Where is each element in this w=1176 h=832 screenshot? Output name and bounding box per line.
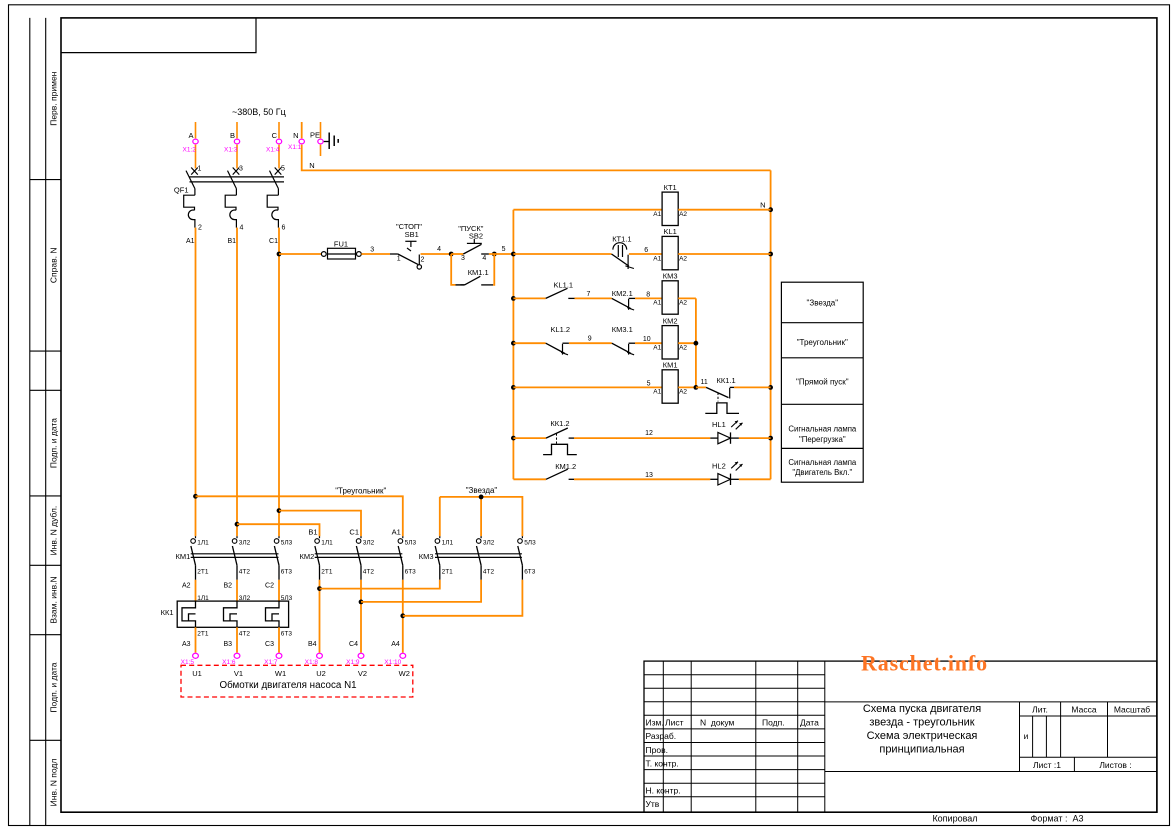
right bus junctions (768, 207, 773, 212)
bus junctions (511, 252, 516, 257)
svg-text:4Т2: 4Т2 (239, 631, 251, 638)
wire row5 left (513, 386, 662, 388)
circuit breaker QF1 (190, 176, 285, 178)
svg-text:X1:2: X1:2 (183, 147, 197, 154)
svg-text:1: 1 (198, 166, 202, 173)
svg-text:А1: А1 (653, 345, 661, 352)
svg-text:~380В, 50 Гц: ~380В, 50 Гц (232, 107, 286, 117)
wire PE stub (320, 122, 322, 138)
thermal contact KK1.2 (546, 428, 568, 438)
svg-text:Перв. примен: Перв. примен (49, 71, 59, 125)
svg-text:13: 13 (645, 472, 653, 479)
svg-text:3Л2: 3Л2 (363, 540, 375, 547)
terminal X1:4 phase C (276, 139, 281, 144)
svg-text:A3: A3 (182, 641, 191, 648)
right N bus (770, 170, 772, 479)
wire delta C to KM2 (279, 511, 361, 537)
svg-text:2Т1: 2Т1 (197, 569, 209, 576)
svg-text:6: 6 (282, 225, 286, 232)
wire KM2 pole1 down (319, 580, 321, 653)
svg-text:А1: А1 (653, 211, 661, 218)
svg-text:12: 12 (645, 430, 653, 437)
signal lamp HL1 (710, 437, 718, 439)
svg-text:A2: A2 (182, 583, 191, 590)
svg-text:C3: C3 (265, 641, 274, 648)
terminal X1:1 neutral (299, 139, 304, 144)
wire row5 to collector (678, 386, 696, 388)
junction star link2 (359, 600, 364, 605)
contact KM1.2 (546, 469, 568, 479)
svg-text:5: 5 (502, 246, 506, 253)
wire KM2 pole2 down (360, 580, 362, 653)
svg-text:KL1: KL1 (663, 227, 676, 236)
svg-text:КМ2: КМ2 (663, 316, 678, 325)
collector vertical A2 (695, 298, 697, 387)
legend boxes (781, 282, 863, 482)
wire KM1 to KK1 (195, 580, 197, 601)
junction delta C (277, 508, 282, 513)
wire phase C drop (278, 122, 280, 138)
wire A1 to KM1 (195, 228, 197, 537)
svg-text:4: 4 (240, 225, 244, 232)
wire KM1.1 branch left (451, 254, 455, 285)
svg-text:6Т3: 6Т3 (281, 569, 293, 576)
wire row3 to collector (678, 297, 696, 299)
wire C1 to FU1 (279, 253, 321, 255)
svg-text:Формат : А3: Формат : А3 (1031, 814, 1084, 824)
wire SB2 to bus (489, 253, 514, 255)
svg-text:N докум: N докум (700, 718, 735, 728)
svg-text:Инв. N подл: Инв. N подл (49, 759, 59, 807)
wire star link1 (320, 580, 440, 589)
svg-text:8: 8 (646, 292, 650, 299)
svg-text:"Перегрузка": "Перегрузка" (799, 435, 846, 444)
thermal relay KK1 (177, 601, 288, 627)
wire row6 mid (574, 437, 710, 439)
svg-text:А1: А1 (653, 300, 661, 307)
svg-text:C1: C1 (269, 238, 278, 245)
svg-text:5Л3: 5Л3 (405, 540, 417, 547)
svg-text:2: 2 (198, 225, 202, 232)
relay coil KT1 (662, 192, 678, 225)
wire row3 left (513, 297, 545, 299)
star bus (440, 497, 523, 536)
svg-text:2Т1: 2Т1 (197, 631, 209, 638)
wire phase A drop (195, 122, 197, 138)
svg-text:5Л3: 5Л3 (281, 595, 293, 602)
svg-text:B1: B1 (227, 238, 236, 245)
svg-text:B1: B1 (308, 528, 317, 537)
svg-text:"Звезда": "Звезда" (807, 299, 839, 308)
svg-text:9: 9 (588, 336, 592, 343)
svg-text:X1:3: X1:3 (224, 147, 238, 154)
svg-text:Подп. и дата: Подп. и дата (49, 418, 59, 468)
terminal X1:3 phase B (234, 139, 239, 144)
svg-text:C1: C1 (349, 528, 359, 537)
svg-text:5Л3: 5Л3 (281, 540, 293, 547)
wire B1 to KM1 (236, 228, 238, 537)
svg-text:B4: B4 (308, 641, 317, 648)
wire N drop and N feeder (302, 122, 771, 170)
svg-text:КК1: КК1 (161, 608, 174, 617)
svg-text:"Прямой пуск": "Прямой пуск" (796, 378, 849, 387)
svg-text:5Л3: 5Л3 (524, 540, 536, 547)
svg-text:А1: А1 (653, 389, 661, 396)
wire phase B drop (236, 122, 238, 138)
svg-text:КМ1.1: КМ1.1 (468, 268, 489, 277)
wire SB1 to SB2 (421, 253, 452, 255)
svg-text:SB1: SB1 (405, 230, 419, 239)
svg-text:N: N (293, 131, 298, 140)
svg-text:КК1.2: КК1.2 (550, 419, 569, 428)
svg-text:3Л2: 3Л2 (239, 540, 251, 547)
svg-text:Т. контр.: Т. контр. (646, 758, 679, 768)
svg-text:"Двигатель Вкл.": "Двигатель Вкл." (792, 468, 852, 477)
svg-text:B2: B2 (223, 583, 232, 590)
svg-text:1: 1 (397, 256, 401, 263)
contactor coil KM3 (662, 281, 678, 314)
svg-text:1Л1: 1Л1 (442, 540, 454, 547)
wire row3 mid2 (635, 297, 662, 299)
svg-text:6Т3: 6Т3 (524, 569, 536, 576)
svg-text:1Л1: 1Л1 (197, 540, 209, 547)
svg-text:принципиальная: принципиальная (879, 744, 964, 756)
wire FU1 to SB1 (361, 253, 390, 255)
terminal PE (318, 139, 323, 144)
svg-text:А2: А2 (679, 300, 687, 307)
svg-text:А2: А2 (679, 255, 687, 262)
svg-text:4Т2: 4Т2 (363, 569, 375, 576)
svg-text:X1:4: X1:4 (266, 147, 280, 154)
svg-text:Изм.: Изм. (646, 718, 664, 728)
svg-text:2: 2 (421, 257, 425, 264)
svg-text:2Т1: 2Т1 (321, 569, 333, 576)
svg-text:Подп. и дата: Подп. и дата (49, 662, 59, 712)
wire row4 mid1 (569, 342, 612, 344)
contactor KM3 main contacts (435, 553, 522, 555)
svg-text:Масса: Масса (1071, 705, 1096, 715)
wire row6 left (513, 437, 546, 439)
wire delta B to KM2 (237, 524, 320, 536)
junction star link1 (317, 586, 322, 591)
svg-text:Лит.: Лит. (1032, 705, 1048, 715)
svg-text:7: 7 (587, 291, 591, 298)
pushbutton SB1 STOP (390, 253, 398, 255)
contact KL1.1 (546, 288, 568, 298)
svg-text:Масштаб: Масштаб (1114, 705, 1150, 715)
svg-text:6: 6 (644, 247, 648, 254)
svg-text:KL1.2: KL1.2 (551, 325, 571, 334)
svg-text:Схема электрическая: Схема электрическая (867, 730, 978, 742)
svg-text:Взам. инв.N: Взам. инв.N (49, 576, 59, 623)
svg-text:4Т2: 4Т2 (239, 569, 251, 576)
svg-text:A4: A4 (391, 641, 400, 648)
svg-text:Листов :: Листов : (1099, 760, 1131, 770)
svg-text:3: 3 (370, 247, 374, 254)
svg-text:QF1: QF1 (174, 186, 189, 195)
thermal contact KK1.1 (706, 387, 728, 397)
wire HL2 to bus (739, 478, 771, 480)
svg-text:V1: V1 (234, 669, 243, 678)
contact KL1.2 (546, 343, 565, 353)
contact KM2.1 (612, 298, 631, 308)
auxiliary contact KM1.1 (461, 284, 465, 286)
svg-text:1Л1: 1Л1 (197, 595, 209, 602)
svg-text:Схема пуска двигателя: Схема пуска двигателя (863, 703, 981, 715)
svg-text:C4: C4 (349, 641, 358, 648)
contactor coil KM1 (662, 370, 678, 403)
svg-text:PE: PE (310, 131, 320, 140)
wire HL1 to bus (739, 437, 771, 439)
svg-text:A: A (188, 131, 193, 140)
svg-text:C: C (272, 131, 278, 140)
wire row2 mid (629, 253, 662, 255)
svg-text:3: 3 (461, 255, 465, 262)
svg-text:КМ2: КМ2 (300, 552, 315, 561)
wire row2 right (678, 253, 770, 255)
svg-text:А2: А2 (679, 211, 687, 218)
svg-text:Сигнальная лампа: Сигнальная лампа (788, 458, 857, 467)
svg-text:HL2: HL2 (712, 461, 726, 470)
wire row1 left (513, 209, 662, 211)
svg-text:4: 4 (482, 255, 486, 262)
svg-text:Инв. N дубл.: Инв. N дубл. (49, 506, 59, 556)
wire star link2 (361, 580, 481, 602)
timed contact KT1.1 (613, 243, 627, 250)
svg-text:"Треугольник": "Треугольник" (797, 338, 848, 347)
svg-text:A1: A1 (392, 528, 401, 537)
svg-text:W1: W1 (275, 669, 286, 678)
svg-text:КМ3.1: КМ3.1 (612, 325, 633, 334)
svg-text:5: 5 (281, 166, 285, 173)
svg-text:B3: B3 (223, 641, 232, 648)
junction delta A (193, 494, 198, 499)
junction star link3 (400, 613, 405, 618)
svg-text:звезда - треугольник: звезда - треугольник (869, 717, 974, 729)
motor winding box (181, 665, 413, 697)
motor terminals X1:5-X1:10 (193, 653, 199, 658)
svg-text:КК1.1: КК1.1 (717, 376, 736, 385)
relay coil KL1 (662, 236, 678, 269)
wire row2 left (513, 253, 611, 255)
svg-text:и: и (1024, 731, 1029, 741)
wire collector to KK1.1 (696, 386, 706, 388)
svg-text:6Т3: 6Т3 (281, 631, 293, 638)
svg-text:Пров.: Пров. (646, 745, 668, 755)
pushbutton SB2 PUSK (463, 244, 481, 254)
svg-text:4: 4 (437, 246, 441, 253)
svg-text:"Звезда": "Звезда" (466, 486, 498, 495)
terminal X1:2 phase A (193, 139, 198, 144)
svg-text:3: 3 (239, 166, 243, 173)
wire row4 mid2 (635, 342, 662, 344)
svg-text:U2: U2 (316, 669, 326, 678)
svg-text:HL1: HL1 (712, 420, 726, 429)
junction node 5 (492, 252, 497, 257)
wire KM2 pole3 down (402, 580, 404, 653)
svg-text:А2: А2 (679, 389, 687, 396)
wire delta A to KM2 (196, 496, 403, 536)
wire to SB2 (451, 253, 463, 255)
svg-text:11: 11 (701, 379, 708, 386)
svg-text:Дата: Дата (800, 718, 819, 728)
svg-text:U1: U1 (192, 669, 202, 678)
wire KM1.1 branch right (493, 254, 494, 285)
svg-text:А1: А1 (653, 255, 661, 262)
wire KK1.1 to bus (734, 386, 771, 388)
svg-text:2Т1: 2Т1 (442, 569, 454, 576)
contact KM3.1 (612, 343, 631, 353)
wire KK1 to motor (195, 627, 197, 652)
svg-text:КМ1: КМ1 (176, 552, 191, 561)
svg-text:Raschet.info: Raschet.info (861, 651, 988, 676)
svg-text:Разраб.: Разраб. (646, 731, 677, 741)
svg-text:5: 5 (647, 380, 651, 387)
svg-text:КМ2.1: КМ2.1 (612, 289, 633, 298)
contactor KM1 main contacts (191, 553, 279, 555)
wire row4 to collector (678, 342, 696, 344)
svg-text:КМ3: КМ3 (663, 272, 678, 281)
fuse FU1 (321, 252, 326, 257)
contactor coil KM2 (662, 326, 678, 359)
svg-text:Утв: Утв (646, 799, 660, 809)
wire row4 left (513, 342, 545, 344)
svg-text:4Т2: 4Т2 (483, 569, 495, 576)
svg-text:X1:1: X1:1 (288, 144, 302, 151)
wire C1 to KM1 (278, 228, 280, 537)
svg-text:КТ1.1: КТ1.1 (612, 235, 631, 244)
svg-text:"Треугольник": "Треугольник" (335, 486, 386, 495)
svg-text:FU1: FU1 (334, 239, 348, 248)
svg-text:Копировал: Копировал (932, 814, 977, 824)
svg-text:А2: А2 (679, 345, 687, 352)
svg-text:W2: W2 (399, 669, 410, 678)
wire row7 mid (574, 478, 710, 480)
svg-text:N: N (309, 161, 314, 170)
svg-text:B: B (230, 131, 235, 140)
svg-text:КМ1: КМ1 (663, 361, 678, 370)
svg-text:Лист: Лист (665, 718, 684, 728)
svg-text:N: N (760, 201, 765, 210)
svg-text:A1: A1 (186, 238, 195, 245)
svg-text:Подп.: Подп. (762, 718, 785, 728)
svg-text:3Л2: 3Л2 (239, 595, 251, 602)
svg-text:6Т3: 6Т3 (405, 569, 417, 576)
svg-text:C2: C2 (265, 583, 274, 590)
svg-text:Обмотки двигателя насоса N1: Обмотки двигателя насоса N1 (220, 680, 357, 691)
wire row3 mid1 (575, 297, 612, 299)
svg-text:Сигнальная лампа: Сигнальная лампа (788, 425, 857, 434)
junction delta B (235, 522, 240, 527)
contactor KM2 main contacts (315, 553, 403, 555)
svg-text:КМ3: КМ3 (419, 552, 434, 561)
junction node 4 (449, 252, 454, 257)
svg-text:КМ1.2: КМ1.2 (555, 462, 576, 471)
left control bus (512, 210, 514, 480)
svg-text:Лист :1: Лист :1 (1033, 760, 1061, 770)
svg-text:3Л2: 3Л2 (483, 540, 495, 547)
svg-text:10: 10 (643, 336, 651, 343)
wire row1 right (678, 209, 770, 211)
svg-text:Н. контр.: Н. контр. (646, 786, 681, 796)
junction on C1 for control feed (277, 252, 282, 257)
svg-text:V2: V2 (358, 669, 367, 678)
ground symbol PE (324, 141, 330, 143)
wire star link3 (403, 580, 523, 616)
svg-text:КТ1: КТ1 (664, 183, 677, 192)
svg-text:Справ. N: Справ. N (49, 248, 59, 284)
svg-text:1Л1: 1Л1 (321, 540, 333, 547)
wire row7 left (513, 478, 546, 480)
svg-text:KL1.1: KL1.1 (554, 281, 574, 290)
signal lamp HL2 (710, 478, 718, 480)
svg-text:SB2: SB2 (469, 232, 483, 241)
